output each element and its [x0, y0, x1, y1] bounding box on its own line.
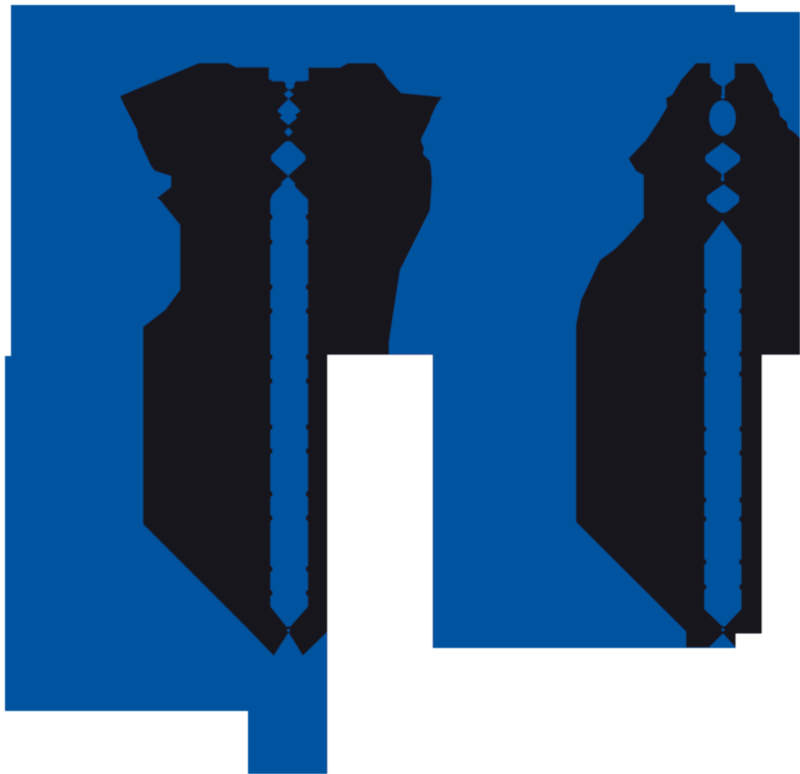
- figure 1 below-tie dot: [287, 629, 290, 632]
- figure 2 below-tie dot: [722, 628, 725, 631]
- figure 2 diamond 1: [705, 143, 740, 175]
- figure 2 diamond 2: [707, 184, 739, 212]
- figure 1 collar gap: [269, 60, 308, 89]
- figure 1 small diamond A: [284, 90, 294, 99]
- figure 2 collar gap: [711, 60, 735, 86]
- figure 1 small diamond B: [284, 128, 292, 137]
- figure 2 black silhouette: [576, 63, 800, 648]
- figure 1 tie: [271, 177, 308, 627]
- white rect 2: [762, 355, 800, 774]
- figure 2 tie: [704, 221, 741, 627]
- figure 1 black silhouette: [120, 63, 442, 656]
- white rect 1: [328, 355, 433, 774]
- figure 2 egg: [709, 100, 735, 135]
- figure 1 big diamond: [271, 141, 306, 175]
- figure 1 knot blob: [277, 99, 300, 125]
- figure 2 neck thread: [722, 85, 725, 92]
